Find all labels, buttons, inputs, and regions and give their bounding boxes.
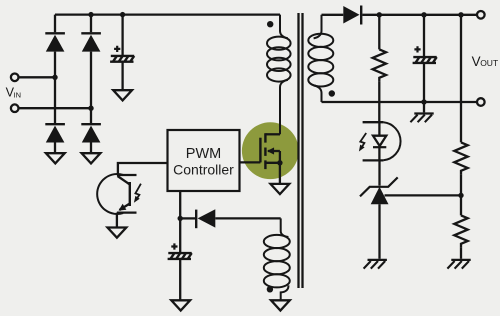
wire upper Vin to bridge: [19, 76, 55, 78]
label PWM Controller: [173, 146, 234, 178]
PWM controller box U1: [168, 130, 240, 191]
ground cap C2: [171, 300, 190, 310]
node rail divider: [458, 12, 463, 17]
ground optocoupler: [108, 228, 127, 238]
node top rail cap C1: [120, 12, 125, 17]
phasing dot auxiliary: [267, 286, 273, 292]
wire secondary top to diode: [322, 14, 344, 16]
ground bridge right: [82, 153, 101, 163]
label VOUT: [472, 54, 499, 69]
diode D6 aux rectifier: [196, 209, 215, 228]
svg-text:PWM: PWM: [186, 146, 221, 162]
svg-text:OUT: OUT: [480, 58, 498, 68]
terminal Vin upper: [11, 74, 19, 82]
wire cap C2 column: [179, 218, 181, 300]
wire node to diode D6: [180, 217, 195, 219]
wire LED to zener: [378, 160, 380, 185]
wire PWM right to gate: [240, 161, 261, 163]
wire top rail secondary: [362, 14, 476, 16]
wire PWM bottom: [179, 191, 181, 218]
phasing dot secondary: [329, 90, 335, 96]
diode D2 bridge upper-right: [81, 33, 101, 51]
highlight circle behind MOSFET: [242, 122, 299, 179]
wire PWM left to optocoupler: [118, 163, 168, 175]
wire bridge column2: [90, 15, 92, 154]
MOSFET Q1: [260, 133, 282, 184]
wire D6 to aux winding: [215, 217, 280, 219]
node bridge col2 / Vin lower: [88, 106, 93, 111]
diode D5 output rectifier: [343, 6, 361, 25]
node top rail col2: [88, 12, 93, 17]
resistor R3 lower divider: [454, 195, 467, 258]
transformer auxiliary winding: [264, 218, 290, 300]
optocoupler phototransistor Q2: [97, 174, 136, 228]
transformer primary winding T1: [267, 15, 291, 135]
transformer core: [299, 13, 303, 288]
wire lower Vin to bridge: [19, 107, 91, 109]
wire top rail primary: [55, 13, 280, 15]
resistor R2 upper divider: [454, 15, 467, 196]
label VIN: [6, 86, 22, 100]
wire bottom rail secondary: [322, 101, 477, 103]
terminal Vout lower: [477, 98, 485, 106]
ground bridge left: [46, 153, 65, 163]
phasing dot primary: [267, 21, 273, 27]
ground cap C1: [113, 90, 132, 100]
zener TL431 shunt regulator: [360, 177, 398, 258]
node rail R1: [377, 12, 382, 17]
optocoupler LED D7: [363, 122, 401, 160]
resistor R1: [373, 15, 386, 122]
light arrow out of LED: [359, 133, 366, 152]
ground auxiliary: [271, 300, 290, 310]
diode D3 bridge lower-left: [45, 124, 65, 142]
svg-text:IN: IN: [14, 91, 22, 100]
terminal Vin lower: [11, 104, 19, 112]
node bridge col1 / Vin upper: [52, 75, 57, 80]
capacitor C3 output: [413, 15, 437, 102]
ground MOSFET source: [271, 184, 290, 194]
svg-text:Controller: Controller: [173, 162, 234, 178]
transformer secondary winding: [308, 15, 333, 102]
wire bridge column1: [54, 15, 56, 154]
capacitor C2 polarized: [168, 243, 192, 259]
node C3 bottom rail: [421, 99, 426, 104]
diode D1 bridge upper-left: [45, 33, 65, 51]
capacitor C1 polarized: [110, 46, 134, 62]
earth ground divider: [447, 260, 470, 269]
node PWM / diode D6 / cap C2: [178, 216, 183, 221]
wire cap C1 column: [121, 15, 123, 91]
node rail C3: [421, 12, 426, 17]
light arrow into phototransistor: [134, 184, 141, 203]
diode D4 bridge lower-right: [81, 124, 101, 142]
wire reference to divider: [385, 194, 462, 196]
earth ground zener: [364, 260, 387, 269]
earth ground output: [410, 102, 433, 122]
terminal Vout upper: [477, 11, 485, 19]
node divider midpoint: [458, 193, 463, 198]
